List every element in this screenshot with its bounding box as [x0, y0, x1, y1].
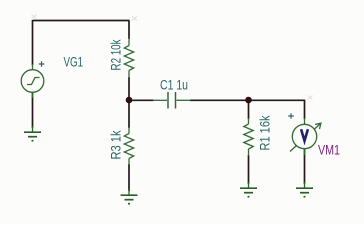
wire VG1 bottom to ground: [32, 92, 34, 128]
wire VG1 top vertical: [32, 20, 34, 65]
pin marker x at VM1 corner: [308, 96, 313, 100]
node B junction dot: [245, 97, 252, 104]
wire node B to VM1 corner: [249, 99, 306, 101]
wire R3 bottom to ground: [128, 164, 130, 191]
VM1 arrow: [290, 124, 321, 152]
capacitor C1: [153, 92, 191, 109]
pin marker x at R2 corner: [132, 17, 137, 21]
voltage generator VG1: [21, 64, 44, 98]
svg-text:R2 10k: R2 10k: [109, 39, 124, 70]
VM1 letter V: [301, 129, 308, 141]
wire VM1 vertical top: [304, 100, 306, 119]
node A junction dot: [126, 97, 133, 104]
wire R2 top vertical: [128, 21, 130, 40]
svg-text:C1 1u: C1 1u: [160, 78, 188, 93]
resistor R3: [124, 127, 133, 165]
svg-text:R3 1k: R3 1k: [109, 130, 124, 159]
ground (R3): [121, 189, 138, 204]
wire R2 bottom to node A: [128, 77, 130, 100]
resistor R1: [244, 118, 253, 156]
svg-text:VG1: VG1: [64, 55, 84, 70]
voltmeter VM1: [290, 118, 321, 155]
VM1 plus sign: [288, 113, 294, 119]
wire node A to C1: [129, 99, 154, 101]
pin marker x at top-left corner: [32, 15, 37, 19]
wire node A to R3: [128, 100, 130, 128]
wire top horizontal: [33, 20, 130, 22]
wire C1 to node B: [190, 99, 249, 101]
svg-text:VM1: VM1: [318, 143, 340, 158]
resistor R2: [124, 38, 133, 78]
ground (VM1): [296, 182, 313, 197]
wire R1 bottom to ground: [248, 155, 250, 184]
wire VM1 bottom to ground: [304, 149, 306, 184]
wire node B to R1: [248, 100, 250, 119]
VG1 plus sign: [39, 61, 45, 67]
VM1 meter circle: [292, 124, 316, 148]
ground (R1): [240, 182, 257, 197]
ground (VG1): [24, 126, 41, 141]
svg-text:R1 16k: R1 16k: [258, 115, 273, 150]
